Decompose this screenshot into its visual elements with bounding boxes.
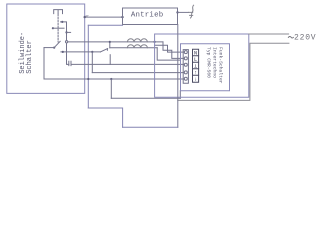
wire up to receiver box bottom — [179, 91, 181, 99]
contact C1 lever — [52, 27, 54, 29]
wire to antenna — [178, 11, 189, 13]
wire c4 feed y=72.6 — [92, 72, 184, 74]
Antrieb box — [123, 8, 178, 25]
terminal circle node — [65, 41, 67, 43]
junction dot (92.3,51.9) — [91, 51, 93, 53]
junction dot on wire1 — [109, 41, 111, 43]
riser wire1 to wire2 — [109, 42, 111, 48]
wire drop x=92.3 to c4 feed — [91, 52, 93, 73]
antenna symbol — [189, 5, 194, 18]
wire H1 y=17.1 to Antrieb — [85, 16, 123, 18]
wire2 y=47.8 — [110, 47, 157, 49]
svg-text:↓: ↓ — [194, 77, 197, 83]
220V N wire — [178, 43, 289, 100]
svg-text:Typ CMR-500: Typ CMR-500 — [206, 47, 212, 78]
wire vertical bus x=88.3 — [87, 25, 89, 108]
svg-text:⊥: ⊥ — [194, 64, 197, 70]
label block — [193, 49, 199, 82]
svg-text:↑: ↑ — [194, 70, 197, 76]
junction dot (62.8,51.9) — [62, 51, 64, 53]
actuator symbol (push-button linkage) — [54, 10, 63, 14]
220V L drop / stair B to c1 — [155, 45, 185, 52]
coil L2 — [127, 45, 147, 48]
receiver terminal strip — [183, 50, 188, 84]
wire y=98.3 — [111, 97, 180, 99]
svg-text:Schalter: Schalter — [26, 40, 34, 74]
wire c5 feed y=79 — [44, 78, 184, 80]
stair A to c2 — [163, 42, 184, 59]
svg-text:220V: 220V — [294, 34, 316, 43]
label glyphs — [194, 51, 197, 83]
contact C2 stub — [67, 31, 71, 33]
junction dot wire1/box2 edge — [154, 41, 156, 43]
svg-text:N: N — [194, 51, 197, 57]
node dot at (84.7,17.1) — [84, 16, 86, 18]
wire drop x=111.3 — [110, 79, 112, 98]
bottom step — [88, 108, 122, 127]
wire3 y=51.9 — [61, 51, 100, 53]
node dot at (122.5,17.1) — [121, 16, 123, 18]
capacitor column — [67, 43, 69, 64]
junction dot c5/drop — [110, 78, 112, 80]
tiny mark near node — [86, 14, 88, 17]
contact C2 column — [66, 28, 68, 40]
svg-text:Funk-Schalter: Funk-Schalter — [218, 47, 224, 84]
wire1 y=41.9 — [68, 41, 163, 43]
svg-text:L: L — [194, 57, 197, 63]
220V L wire y=34 — [249, 33, 289, 35]
dashed mechanical link — [57, 14, 59, 42]
riser from cap wire toward lever — [109, 55, 111, 65]
svg-text:Antrieb: Antrieb — [131, 11, 163, 19]
motor switch lever — [100, 49, 107, 52]
contact C3 lever — [53, 47, 55, 49]
svg-text:Intertechno: Intertechno — [212, 47, 218, 78]
capacitor wire to c3 — [71, 63, 184, 65]
N vertical x=177.8 — [177, 25, 179, 128]
terminal circles — [184, 51, 187, 81]
enclosure box2 around receiver — [155, 34, 249, 97]
wire from C3 pivot to left drop — [44, 47, 54, 49]
contact C1 fixed — [61, 22, 67, 28]
receiver outer box — [181, 44, 230, 91]
wire H2 y=25.3 to Antrieb — [88, 24, 122, 26]
text ~ 220V — [288, 36, 294, 38]
node dot at (177.5,12.4) — [176, 11, 178, 13]
coil L1 — [127, 39, 147, 42]
wire drop to c5 feed — [43, 48, 45, 79]
coil2 staircase — [157, 48, 180, 60]
bottom wire y=127.3 — [123, 126, 178, 128]
Seilwinde-Schalter enclosure box — [7, 4, 85, 93]
capacitor plates — [69, 61, 71, 65]
junction dot on c5 feed at bus — [87, 78, 89, 80]
